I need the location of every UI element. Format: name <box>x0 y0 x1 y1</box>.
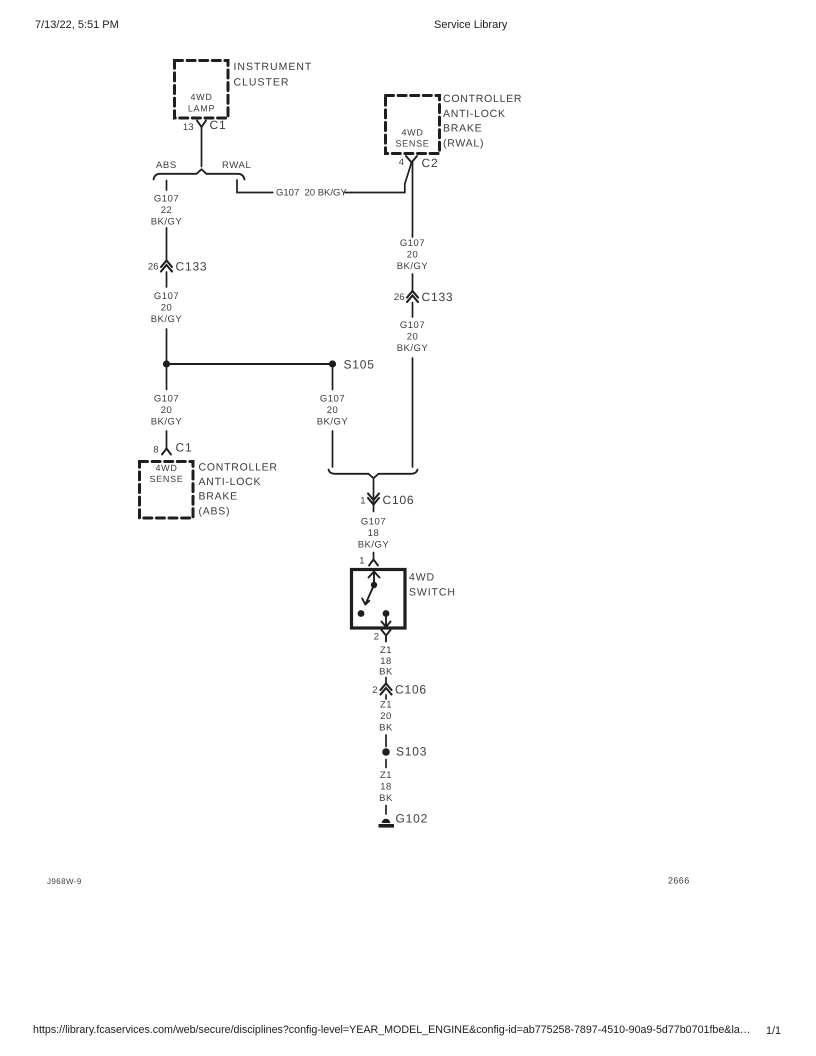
svg-text:SENSE: SENSE <box>149 474 183 484</box>
svg-text:ABS: ABS <box>156 160 177 171</box>
ABS controller box <box>140 462 194 519</box>
svg-text:C133: C133 <box>422 290 454 304</box>
svg-text:Z1: Z1 <box>380 770 392 781</box>
switch thrown contact dot <box>358 610 365 617</box>
RWAL branch name <box>222 160 251 171</box>
horizontal wire to S105 <box>167 363 333 365</box>
pin 2 label at switch <box>374 632 379 643</box>
switch pin 1 fork <box>369 560 378 566</box>
svg-text:20: 20 <box>380 711 392 722</box>
pin 4 label <box>399 157 404 168</box>
connector C106 (pin 1) chevrons down <box>368 494 379 505</box>
svg-text:C2: C2 <box>422 156 439 170</box>
svg-text:G107: G107 <box>154 194 179 205</box>
wire down to C106 pin 2 <box>385 678 387 684</box>
wire label Z1 18 BK lower <box>379 770 393 804</box>
diagonal wire from C2 to horizontal run <box>405 163 412 193</box>
pin 1 label at switch <box>359 556 364 567</box>
wire from C1 down to splice brace <box>201 127 203 167</box>
wire label Z1 20 BK <box>379 700 393 734</box>
svg-text:2666: 2666 <box>668 876 690 886</box>
wire down to splice S105 row <box>166 329 168 364</box>
switch blade diagonal with arrow <box>362 585 374 605</box>
svg-text:BK/GY: BK/GY <box>397 343 429 354</box>
wire label G107 20BK/GY horizontal <box>276 188 347 199</box>
svg-text:S105: S105 <box>344 358 375 372</box>
svg-text:CONTROLLER: CONTROLLER <box>199 462 278 474</box>
svg-text:20: 20 <box>161 405 173 416</box>
svg-text:G107 20 BK/GY: G107 20 BK/GY <box>276 188 347 199</box>
pin 2 label <box>372 685 377 696</box>
switch input arrow inside box <box>369 572 380 584</box>
4WD SWITCH label <box>409 572 456 599</box>
wire below S103 <box>385 760 387 768</box>
wire down to C133 right <box>412 274 414 291</box>
svg-text:INSTRUMENT: INSTRUMENT <box>234 61 313 73</box>
svg-text:Z1: Z1 <box>380 700 392 711</box>
wire below C106 <box>385 695 387 699</box>
splice S105 label <box>344 358 375 372</box>
wire down to C1 of ABS controller <box>166 431 168 449</box>
connector C106 (pin 2) chevrons up <box>381 684 392 695</box>
header date <box>35 19 119 31</box>
wire below C133 right <box>412 303 414 318</box>
svg-text:20: 20 <box>161 303 173 314</box>
svg-text:18: 18 <box>380 656 392 667</box>
svg-text:G107: G107 <box>154 394 179 405</box>
svg-text:20: 20 <box>407 332 419 343</box>
svg-text:SENSE: SENSE <box>395 139 429 149</box>
instrument cluster box <box>175 61 229 119</box>
splice S103 label <box>396 745 427 759</box>
splice S105 dot <box>329 360 336 367</box>
controller anti-lock brake ABS label <box>199 462 278 518</box>
connector C106 label <box>383 493 415 507</box>
wire label G107 22 BK/GY <box>151 194 183 228</box>
svg-text:C133: C133 <box>176 260 208 274</box>
pin 1 label <box>360 496 365 507</box>
wire below C133 left <box>166 272 168 287</box>
wire below left junction <box>166 368 168 390</box>
wire down to switch pin 1 <box>373 553 375 560</box>
svg-text:C106: C106 <box>383 493 415 507</box>
splice brace splitting to ABS / RWAL <box>154 169 245 179</box>
svg-text:BRAKE: BRAKE <box>443 123 482 135</box>
wire down to merge brace <box>332 431 334 467</box>
svg-text:26: 26 <box>148 262 159 273</box>
svg-text:CLUSTER: CLUSTER <box>234 77 290 89</box>
horizontal wire G107 20BK/GY from RWAL brace <box>237 180 405 193</box>
svg-text:SWITCH: SWITCH <box>409 587 456 599</box>
wire down to C133 left <box>166 228 168 261</box>
wire S105 down to merge brace left <box>332 368 334 390</box>
wire label G107 20 BK/GY to ABS <box>151 394 183 428</box>
wire below merge brace <box>373 480 375 512</box>
svg-text:ANTI-LOCK: ANTI-LOCK <box>443 108 506 120</box>
connector C133 left (pin 26) chevrons <box>161 261 172 272</box>
ground G102 symbol <box>382 819 390 823</box>
RWAL controller box <box>386 96 440 154</box>
svg-text:BK/GY: BK/GY <box>397 261 429 272</box>
pin 8 label <box>153 445 158 456</box>
svg-text:BK: BK <box>379 793 393 804</box>
connector C2 fork (pin 4) <box>406 156 417 163</box>
controller anti-lock brake RWAL label <box>443 93 522 150</box>
connector C1 fork (pin 13) <box>197 121 206 128</box>
connector C1 (ABS) label <box>176 441 193 455</box>
svg-text:G107: G107 <box>320 394 345 405</box>
wire down to S103 <box>385 735 387 747</box>
sheet number 2666 <box>668 876 690 886</box>
merge brace joining to C106 <box>329 470 418 479</box>
svg-text:4WD: 4WD <box>190 92 212 102</box>
connector C133 left label <box>176 260 208 274</box>
connector C1 fork at ABS controller (pin 8) <box>162 449 171 455</box>
ABS branch name <box>156 160 177 171</box>
instrument cluster label <box>234 61 313 89</box>
svg-text:BK/GY: BK/GY <box>317 417 349 428</box>
pin 26 label right <box>394 292 405 303</box>
connector C106 lower label <box>395 683 427 697</box>
svg-text:G107: G107 <box>154 291 179 302</box>
svg-text:G102: G102 <box>396 812 429 826</box>
svg-text:BK/GY: BK/GY <box>358 540 390 551</box>
svg-text:(RWAL): (RWAL) <box>443 138 484 150</box>
svg-text:BK/GY: BK/GY <box>151 314 183 325</box>
4WD switch box <box>352 570 406 629</box>
switch output contact dot <box>383 610 390 617</box>
svg-text:2: 2 <box>372 685 377 696</box>
switch pin 2 fork below box <box>382 630 391 642</box>
pin 13 label <box>183 122 194 133</box>
wire down to ground <box>385 806 387 815</box>
connector C2 label <box>422 156 439 170</box>
switch common contact dot <box>371 582 377 588</box>
wire label G107 20 BK/GY left <box>151 291 183 325</box>
connector C133 right label <box>422 290 454 304</box>
wire label G107 18 BK/GY <box>358 517 390 551</box>
svg-text:G107: G107 <box>400 320 425 331</box>
svg-text:1: 1 <box>359 556 364 567</box>
svg-text:2: 2 <box>374 632 379 643</box>
4WD SENSE label (RWAL) <box>395 128 429 149</box>
connector C1 label <box>210 118 227 132</box>
footer url <box>33 1024 750 1036</box>
svg-text:22: 22 <box>161 205 173 216</box>
4WD SENSE label (ABS) <box>149 463 183 484</box>
drawing number J968W-9 <box>47 877 82 886</box>
svg-text:ANTI-LOCK: ANTI-LOCK <box>199 476 262 488</box>
svg-text:20: 20 <box>327 405 339 416</box>
wire label Z1 18 BK upper <box>379 645 393 678</box>
svg-text:Z1: Z1 <box>380 645 392 656</box>
svg-text:4WD: 4WD <box>155 463 177 473</box>
svg-text:18: 18 <box>368 528 380 539</box>
wire label G107 20 BK/GY right lower <box>397 320 429 354</box>
svg-text:20: 20 <box>407 250 419 261</box>
connector C133 right (pin 26) chevrons <box>407 291 418 302</box>
svg-text:18: 18 <box>380 782 392 793</box>
svg-text:BK: BK <box>379 667 393 678</box>
pin 26 label <box>148 262 159 273</box>
svg-text:J968W-9: J968W-9 <box>47 877 82 886</box>
svg-text:4WD: 4WD <box>409 572 435 584</box>
svg-text:8: 8 <box>153 445 158 456</box>
svg-text:RWAL: RWAL <box>222 160 251 171</box>
svg-text:G107: G107 <box>400 238 425 249</box>
wire stub below brace left <box>166 181 168 191</box>
wire down to merge brace right <box>412 358 414 467</box>
svg-text:1: 1 <box>360 496 365 507</box>
svg-text:BK/GY: BK/GY <box>151 417 183 428</box>
junction dot left <box>163 360 170 367</box>
footer page number <box>766 1025 781 1037</box>
4WD LAMP label <box>188 92 215 114</box>
header title <box>434 19 507 31</box>
wire from C2 straight down <box>412 163 414 238</box>
svg-text:BRAKE: BRAKE <box>199 491 238 503</box>
svg-text:4WD: 4WD <box>401 128 423 138</box>
svg-text:BK: BK <box>379 723 393 734</box>
svg-text:C1: C1 <box>210 118 227 132</box>
svg-text:CONTROLLER: CONTROLLER <box>443 93 522 105</box>
svg-text:C1: C1 <box>176 441 193 455</box>
switch output arrow to box edge <box>382 617 391 627</box>
wire label G107 20 BK/GY right upper <box>397 238 429 272</box>
svg-text:4: 4 <box>399 157 404 168</box>
svg-text:S103: S103 <box>396 745 427 759</box>
svg-text:13: 13 <box>183 122 194 133</box>
svg-text:C106: C106 <box>395 683 427 697</box>
svg-text:(ABS): (ABS) <box>199 506 231 518</box>
svg-text:BK/GY: BK/GY <box>151 217 183 228</box>
svg-text:G107: G107 <box>361 517 386 528</box>
svg-text:LAMP: LAMP <box>188 104 215 114</box>
splice S103 dot <box>382 748 390 756</box>
svg-text:26: 26 <box>394 292 405 303</box>
ground G102 label <box>396 812 429 826</box>
wire label G107 20 BK/GY middle <box>317 394 349 428</box>
